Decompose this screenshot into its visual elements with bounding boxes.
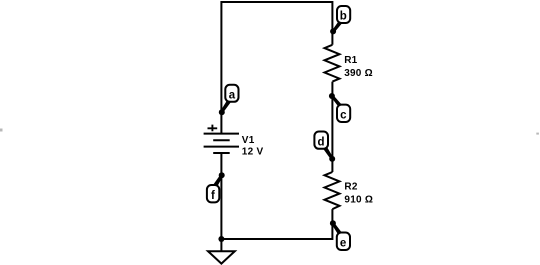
- svg-text:c: c: [340, 110, 347, 122]
- svg-text:f: f: [211, 190, 215, 202]
- svg-text:a: a: [229, 89, 236, 101]
- svg-text:910 Ω: 910 Ω: [344, 195, 373, 206]
- svg-text:b: b: [340, 11, 347, 23]
- svg-text:R1: R1: [344, 55, 357, 66]
- svg-text:V1: V1: [242, 135, 255, 146]
- svg-text:e: e: [340, 238, 346, 250]
- svg-text:d: d: [317, 136, 324, 148]
- svg-text:12 V: 12 V: [242, 147, 264, 158]
- svg-text:R2: R2: [344, 182, 357, 193]
- svg-text:390 Ω: 390 Ω: [344, 68, 373, 79]
